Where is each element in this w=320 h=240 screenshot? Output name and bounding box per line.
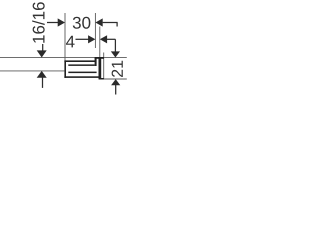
dimension 30 label	[73, 17, 91, 29]
dimension 30 left arrow	[47, 22, 59, 24]
dimension 21 label	[112, 61, 123, 77]
dimension 16/16 label	[32, 2, 44, 43]
profile outer bottom edge	[64, 76, 98, 78]
wall line	[103, 53, 105, 80]
extension line bottom-right (21 lower reference)	[101, 78, 127, 80]
profile inner bottom line	[68, 72, 96, 74]
wall rail left face	[99, 58, 102, 80]
dimension 16/16 upper arrow	[42, 44, 44, 52]
wall rail bottom edge	[99, 78, 104, 80]
dimension 4 right arrow	[100, 35, 107, 43]
profile inner top line	[68, 64, 94, 66]
profile hook top link	[95, 57, 104, 59]
profile outer top edge	[64, 60, 96, 62]
extension line lower-left (16/16 bottom reference)	[0, 70, 64, 72]
extension line V1 (left side of 30)	[64, 13, 66, 60]
extension line V2 (right side of 30 / left of 4)	[94, 13, 96, 48]
dimension 4 left arrow	[76, 38, 91, 40]
dimension 16/16 lower arrow	[37, 71, 47, 78]
extension line V3 (right side of 4)	[99, 27, 101, 58]
dimension 21 lower arrow	[111, 79, 120, 85]
profile outer left edge	[64, 60, 66, 78]
profile hook bar	[95, 58, 97, 67]
dimension 30 right arrow	[95, 18, 102, 26]
extension line top (16/16 + 21 upper reference)	[0, 57, 127, 59]
dimension 21 upper arrow	[114, 39, 116, 51]
dimension 4 label	[66, 36, 75, 48]
